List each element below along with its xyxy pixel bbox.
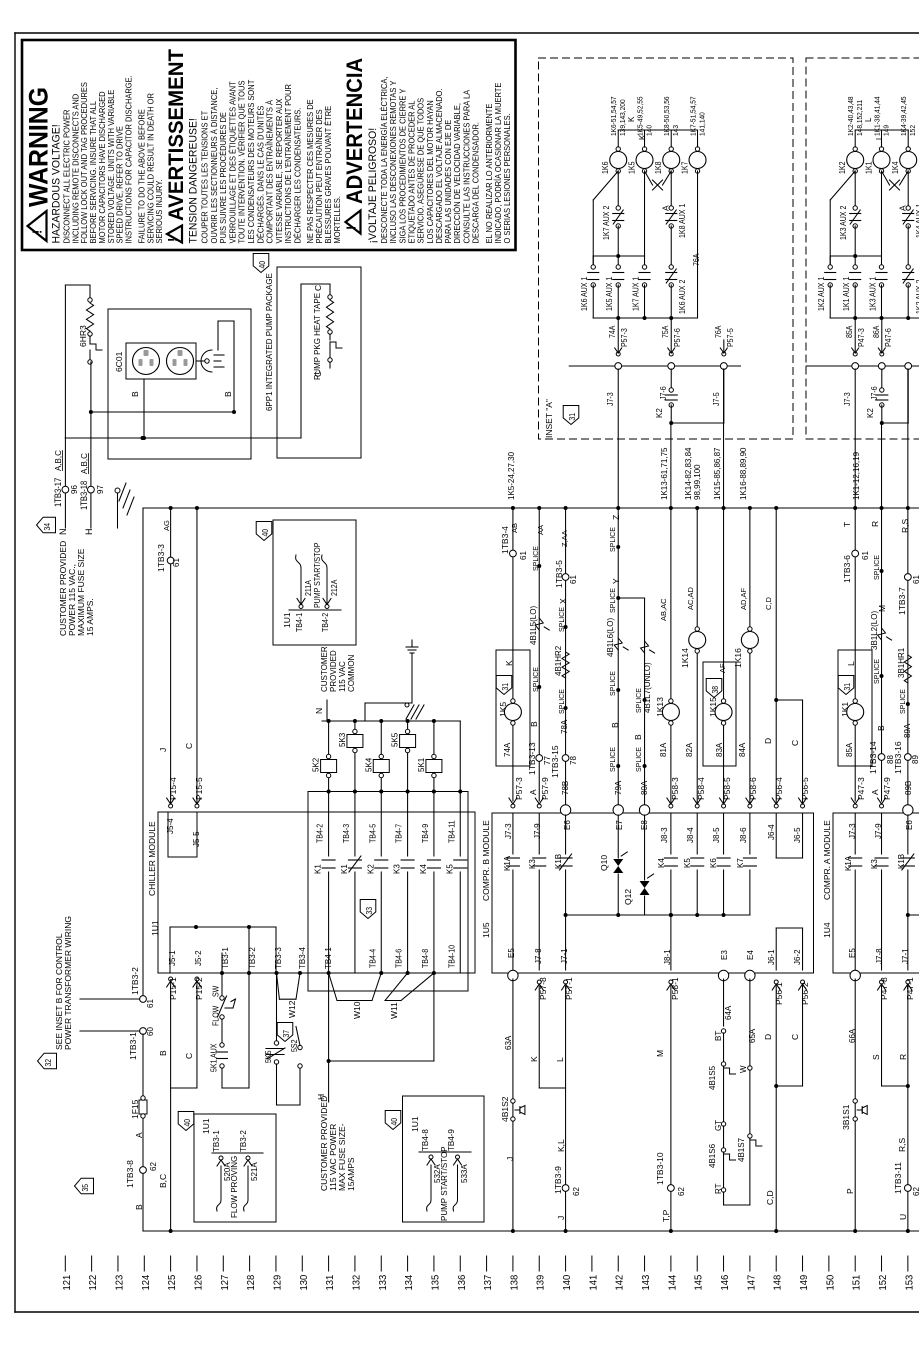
- svg-text:134: 134: [404, 1274, 416, 1290]
- svg-text:FLOW: FLOW: [211, 1005, 221, 1026]
- svg-text:85A: 85A: [845, 326, 855, 338]
- svg-text:TB3-2: TB3-2: [239, 1130, 248, 1152]
- svg-text:J: J: [556, 1216, 566, 1220]
- svg-text:SIGA LOS PROCEDIMIENTOS DE CIE: SIGA LOS PROCEDIMIENTOS DE CIERRE Y: [398, 89, 407, 244]
- svg-text:38: 38: [710, 686, 720, 694]
- svg-text:P58-5: P58-5: [722, 777, 732, 800]
- svg-text:4B1S7: 4B1S7: [737, 1137, 746, 1162]
- svg-text:P56-2: P56-2: [800, 982, 810, 1005]
- svg-text:INCLUSO LAS DESCONEXIONES REMO: INCLUSO LAS DESCONEXIONES REMOTAS Y: [389, 81, 398, 244]
- svg-text:R,S: R,S: [897, 1138, 907, 1153]
- svg-text:63A: 63A: [504, 1035, 513, 1050]
- svg-text:B,C: B,C: [158, 1174, 168, 1188]
- svg-text:76A: 76A: [692, 254, 702, 266]
- svg-text:P47-9: P47-9: [882, 777, 892, 800]
- svg-text:J7-3: J7-3: [843, 392, 853, 406]
- svg-text:J8-3: J8-3: [660, 827, 669, 843]
- svg-text:J7-1: J7-1: [560, 948, 569, 964]
- svg-text:P15-2: P15-2: [194, 977, 204, 1000]
- svg-text:15AMPS: 15AMPS: [346, 1157, 356, 1191]
- svg-text:85A: 85A: [845, 742, 854, 757]
- svg-text:J: J: [158, 748, 168, 752]
- svg-text:ETIQUETADO ANTES DE PROCEDER A: ETIQUETADO ANTES DE PROCEDER AL: [407, 100, 416, 244]
- svg-text:EL NO REALIZAR LO ANTERIORMENT: EL NO REALIZAR LO ANTERIORMENTE: [485, 104, 494, 244]
- svg-text:40: 40: [182, 1119, 192, 1127]
- svg-text:J: J: [505, 1157, 515, 1161]
- svg-text:A: A: [134, 1132, 144, 1138]
- svg-text:J8-6: J8-6: [739, 827, 748, 843]
- svg-text:K1: K1: [314, 864, 323, 874]
- svg-text:W: W: [739, 1065, 748, 1073]
- svg-text:1K7-51,54,57: 1K7-51,54,57: [690, 96, 697, 136]
- svg-text:B: B: [134, 1204, 144, 1210]
- svg-text:140: 140: [646, 125, 653, 136]
- svg-text:124: 124: [140, 1274, 152, 1290]
- svg-text:J7-9: J7-9: [533, 823, 542, 839]
- svg-text:P57-3: P57-3: [620, 328, 630, 347]
- svg-text:N: N: [314, 708, 324, 714]
- svg-text:1TB3-18: 1TB3-18: [78, 480, 89, 510]
- svg-text:1TB3-4: 1TB3-4: [500, 526, 510, 554]
- svg-text:1K6: 1K6: [601, 162, 611, 174]
- svg-text:K: K: [504, 660, 514, 666]
- svg-text:B: B: [158, 1050, 168, 1056]
- svg-text:P58-1: P58-1: [670, 977, 680, 1000]
- svg-text:PRÉCAUTION PEUT ENTRAÎNER DES: PRÉCAUTION PEUT ENTRAÎNER DES: [315, 109, 324, 243]
- svg-text:H: H: [84, 529, 94, 536]
- svg-text:1TB3-11: 1TB3-11: [893, 1162, 903, 1194]
- svg-text:O SERIAS LESIONES PERSONALES.: O SERIAS LESIONES PERSONALES.: [503, 113, 512, 243]
- svg-text:S: S: [871, 1054, 881, 1060]
- svg-text:4B1S5: 4B1S5: [708, 1065, 717, 1090]
- svg-text:L: L: [555, 1057, 565, 1062]
- svg-text:J5-4: J5-4: [166, 818, 175, 834]
- svg-text:AB: AB: [510, 523, 519, 533]
- svg-text:135: 135: [430, 1274, 442, 1290]
- svg-text:31: 31: [567, 413, 577, 421]
- svg-text:B: B: [223, 391, 233, 397]
- svg-text:Q10: Q10: [599, 855, 609, 871]
- svg-text:E6: E6: [905, 820, 914, 830]
- svg-text:L: L: [864, 117, 873, 122]
- svg-text:4B1L5(LO): 4B1L5(LO): [529, 606, 538, 645]
- svg-text:J6-5: J6-5: [793, 827, 802, 843]
- svg-text:PROVIDED: PROVIDED: [329, 650, 338, 692]
- svg-text:Y: Y: [611, 578, 621, 584]
- svg-text:521A: 521A: [250, 1162, 259, 1181]
- svg-text:J7-6: J7-6: [659, 386, 669, 400]
- svg-text:K1B: K1B: [897, 854, 906, 869]
- svg-text:84A: 84A: [738, 742, 747, 757]
- svg-text:C,D: C,D: [765, 1190, 775, 1205]
- svg-text:CONSULTE LAS INSTRUCCIONES PAR: CONSULTE LAS INSTRUCCIONES PARA LA: [462, 89, 471, 243]
- svg-text:61: 61: [172, 558, 181, 567]
- svg-text:TB4-9: TB4-9: [420, 824, 430, 843]
- svg-text:D: D: [763, 738, 773, 744]
- svg-text:4B1S6: 4B1S6: [708, 1143, 717, 1168]
- svg-text:61: 61: [912, 575, 919, 584]
- svg-text:129: 129: [272, 1274, 284, 1290]
- svg-text:130: 130: [298, 1274, 310, 1290]
- svg-text:1TB3-16: 1TB3-16: [893, 741, 903, 774]
- svg-text:U: U: [898, 1214, 908, 1220]
- svg-text:133: 133: [377, 1274, 389, 1290]
- svg-text:A: A: [528, 789, 538, 795]
- svg-text:3B1S1: 3B1S1: [841, 1104, 851, 1130]
- svg-text:PUMP START/STOP: PUMP START/STOP: [440, 1146, 449, 1221]
- svg-text:1U1: 1U1: [282, 612, 292, 628]
- svg-text:P47-3: P47-3: [856, 777, 866, 800]
- svg-text:K5: K5: [445, 864, 454, 874]
- svg-text:P57-5: P57-5: [725, 328, 735, 347]
- svg-text:137: 137: [483, 1274, 495, 1290]
- svg-text:TB3-3: TB3-3: [274, 947, 283, 969]
- svg-text:T: T: [842, 522, 852, 527]
- svg-text:TB4-3: TB4-3: [341, 824, 351, 843]
- svg-text:89B: 89B: [904, 781, 913, 795]
- svg-text:SW: SW: [211, 985, 221, 997]
- svg-text:89: 89: [911, 755, 919, 764]
- svg-text:K: K: [529, 1056, 539, 1062]
- svg-text:BLESSURES GRAVES POUVANT ÊTRE: BLESSURES GRAVES POUVANT ÊTRE: [324, 106, 333, 244]
- svg-text:TB4-7: TB4-7: [394, 824, 404, 843]
- svg-text:Z,AA: Z,AA: [560, 530, 569, 547]
- svg-text:146: 146: [720, 1274, 732, 1290]
- svg-text:C: C: [184, 1053, 194, 1059]
- svg-text:K7: K7: [736, 858, 745, 868]
- svg-text:K2: K2: [866, 408, 875, 418]
- svg-text:INSET "A": INSET "A": [544, 399, 554, 438]
- svg-text:62: 62: [572, 1187, 581, 1196]
- svg-text:143: 143: [673, 125, 680, 136]
- svg-text:35: 35: [80, 1184, 90, 1192]
- svg-text:SERVICIO. ASEGÚRESE DE QUE TO: SERVICIO. ASEGÚRESE DE QUE TODOS: [416, 98, 425, 244]
- svg-text:5K1 AUX: 5K1 AUX: [209, 1044, 219, 1072]
- svg-text:TB3-1: TB3-1: [212, 1130, 221, 1152]
- svg-text:1K15-85,86,87: 1K15-85,86,87: [713, 447, 722, 500]
- svg-text:128: 128: [246, 1274, 258, 1290]
- svg-text:86A: 86A: [871, 326, 881, 338]
- svg-text:1U1: 1U1: [410, 1116, 420, 1132]
- svg-text:TB4-5: TB4-5: [368, 824, 378, 843]
- svg-text:144: 144: [667, 1274, 679, 1290]
- svg-text:TB4-8: TB4-8: [421, 1129, 430, 1151]
- svg-text:TENSION DANGEREUSE!: TENSION DANGEREUSE!: [187, 118, 199, 243]
- svg-text:P56-4: P56-4: [774, 777, 784, 800]
- svg-text:1K1 AUX 1: 1K1 AUX 1: [842, 277, 852, 311]
- svg-text:C: C: [313, 285, 323, 291]
- svg-text:SPLICE: SPLICE: [610, 747, 617, 772]
- svg-text:1K14-82,83,84: 1K14-82,83,84: [684, 447, 693, 500]
- svg-text:1U1: 1U1: [150, 920, 160, 936]
- svg-text:65A: 65A: [748, 1028, 757, 1043]
- svg-text:5K5: 5K5: [264, 1051, 274, 1063]
- svg-text:5S2: 5S2: [290, 1040, 300, 1052]
- svg-text:61: 61: [861, 551, 870, 560]
- svg-text:533A: 533A: [460, 1164, 469, 1183]
- svg-text:1K3 AUX 1: 1K3 AUX 1: [868, 277, 878, 311]
- svg-text:78A: 78A: [560, 719, 569, 734]
- svg-text:SPLICE: SPLICE: [874, 659, 881, 684]
- svg-text:141,140: 141,140: [699, 112, 706, 136]
- svg-text:C: C: [184, 743, 194, 749]
- svg-text:R: R: [870, 521, 880, 527]
- svg-text:212A: 212A: [330, 580, 340, 596]
- svg-text:4B1S2: 4B1S2: [500, 1096, 510, 1122]
- svg-text:1K8: 1K8: [654, 162, 664, 174]
- svg-text:DÉCHARGÉS. DANS LE CAS D'UNI: DÉCHARGÉS. DANS LE CAS D'UNITÉS: [256, 106, 265, 244]
- svg-text:6HR3: 6HR3: [78, 325, 88, 347]
- svg-text:78B: 78B: [561, 781, 570, 795]
- svg-text:75A: 75A: [661, 326, 671, 338]
- svg-text:SPLICE: SPLICE: [636, 747, 643, 772]
- svg-text:K4: K4: [657, 858, 666, 868]
- svg-text:1U4: 1U4: [822, 922, 832, 938]
- svg-text:1TB3-6: 1TB3-6: [842, 555, 852, 583]
- svg-text:K: K: [627, 116, 636, 122]
- svg-text:64A: 64A: [724, 1005, 733, 1020]
- svg-text:1K6 AUX 1: 1K6 AUX 1: [580, 277, 590, 311]
- svg-text:J7-3: J7-3: [504, 823, 513, 839]
- svg-text:SPLICE: SPLICE: [610, 527, 617, 552]
- svg-text:32: 32: [43, 1059, 53, 1067]
- svg-text:140: 140: [562, 1274, 574, 1290]
- svg-text:M: M: [655, 1050, 665, 1057]
- svg-text:1K1: 1K1: [864, 162, 874, 174]
- svg-text:LOS CAPACITORES DEL MOTOR HAYA: LOS CAPACITORES DEL MOTOR HAYAN: [426, 100, 435, 243]
- svg-text:126: 126: [193, 1274, 205, 1290]
- svg-text:LES CONDENSATEURS DES MOTEURS: LES CONDENSATEURS DES MOTEURS SONT: [247, 79, 256, 243]
- svg-text:80A: 80A: [640, 780, 649, 795]
- svg-text:VITESSE VARIABLE, SE REPORTER: VITESSE VARIABLE, SE REPORTER AUX: [275, 99, 284, 244]
- svg-text:1TB3-3: 1TB3-3: [156, 544, 166, 572]
- svg-text:TB4-8: TB4-8: [420, 949, 430, 968]
- svg-text:AA: AA: [536, 525, 545, 535]
- svg-text:1TB3-8: 1TB3-8: [125, 1160, 135, 1188]
- svg-text:1TB3-9: 1TB3-9: [553, 1166, 563, 1194]
- svg-text:1TB3-5: 1TB3-5: [554, 560, 564, 588]
- svg-text:VERROUILLAGE ET DES ÉTIQUETTES: VERROUILLAGE ET DES ÉTIQUETTES AVANT: [228, 81, 237, 244]
- svg-text:P56-1: P56-1: [774, 982, 784, 1005]
- svg-text:¡VOLTAJE PELIGROSO!: ¡VOLTAJE PELIGROSO!: [367, 128, 379, 244]
- svg-text:CHILLER MODULE: CHILLER MODULE: [147, 821, 157, 896]
- svg-text:1TB3-14: 1TB3-14: [868, 741, 878, 774]
- svg-text:B: B: [876, 725, 886, 731]
- svg-text:COMPORTANT DES ENTRAÎNEMENTS À: COMPORTANT DES ENTRAÎNEMENTS À: [265, 99, 274, 243]
- svg-text:TB3-4: TB3-4: [298, 947, 307, 969]
- svg-text:1K2: 1K2: [838, 162, 848, 174]
- svg-text:1U5: 1U5: [481, 922, 491, 938]
- svg-text:145: 145: [693, 1274, 705, 1290]
- svg-text:SPLICE: SPLICE: [559, 689, 566, 714]
- svg-text:66A: 66A: [848, 1028, 857, 1043]
- svg-text:1TB3-7: 1TB3-7: [897, 587, 907, 615]
- svg-text:M: M: [877, 605, 887, 612]
- svg-text:K2: K2: [655, 408, 664, 418]
- svg-text:TOUTE INTERVENTION. VÉRIFIER: TOUTE INTERVENTION. VÉRIFIER QUE TOUS: [237, 81, 246, 244]
- svg-text:61: 61: [146, 999, 155, 1008]
- svg-text:COUPER TOUTES LES TENSIONS ET: COUPER TOUTES LES TENSIONS ET: [200, 111, 209, 244]
- svg-text:76A: 76A: [713, 326, 723, 338]
- svg-text:1K2-40,43,48: 1K2-40,43,48: [848, 96, 855, 136]
- svg-text:J7-5: J7-5: [711, 392, 721, 406]
- svg-text:P57-6: P57-6: [673, 328, 683, 347]
- svg-text:COMPR. B MODULE: COMPR. B MODULE: [481, 820, 491, 901]
- svg-text:C: C: [790, 1034, 800, 1040]
- svg-text:131: 131: [325, 1274, 337, 1290]
- svg-text:136: 136: [456, 1274, 468, 1290]
- svg-text:127: 127: [219, 1274, 231, 1290]
- svg-text:31: 31: [500, 683, 510, 691]
- svg-text:C,D: C,D: [764, 597, 773, 611]
- svg-text:COMPR. A MODULE: COMPR. A MODULE: [822, 820, 832, 900]
- svg-text:T,P: T,P: [661, 1209, 671, 1222]
- svg-text:ADVERTENCIA: ADVERTENCIA: [343, 58, 367, 204]
- svg-text:1K6 AUX 2: 1K6 AUX 2: [678, 280, 688, 314]
- svg-text:Q12: Q12: [623, 889, 633, 905]
- svg-text:CUSTOMER: CUSTOMER: [320, 646, 329, 692]
- svg-text:J7-8: J7-8: [534, 948, 543, 964]
- svg-text:J7-8: J7-8: [875, 948, 884, 964]
- svg-text:INSTRUCTIONS FOR CAPACITOR DIS: INSTRUCTIONS FOR CAPACITOR DISCHARGE.: [124, 75, 133, 243]
- svg-text:SPLICE: SPLICE: [900, 689, 907, 714]
- svg-text:62: 62: [677, 1187, 686, 1196]
- svg-text:J7-6: J7-6: [869, 386, 879, 400]
- svg-text:A: A: [898, 205, 908, 211]
- svg-text:P15-5: P15-5: [194, 777, 204, 800]
- svg-text:E7: E7: [615, 820, 624, 830]
- svg-text:P47-6: P47-6: [883, 328, 893, 347]
- svg-text:79A: 79A: [614, 780, 623, 795]
- svg-text:J5-1: J5-1: [168, 950, 177, 966]
- svg-text:C: C: [790, 740, 800, 746]
- svg-text:82A: 82A: [685, 742, 694, 757]
- svg-text:149: 149: [799, 1274, 811, 1290]
- svg-text:PUMP START/STOP: PUMP START/STOP: [313, 543, 323, 608]
- svg-text:1K13-61,71,75: 1K13-61,71,75: [660, 447, 669, 500]
- svg-text:SPLICE: SPLICE: [610, 671, 617, 696]
- svg-text:COMMON: COMMON: [347, 654, 356, 692]
- svg-text:PUIS SUIVRE LES PROCÉDURES DE: PUIS SUIVRE LES PROCÉDURES DE: [219, 112, 228, 243]
- svg-text:40: 40: [257, 261, 267, 269]
- svg-text:B: B: [633, 734, 643, 740]
- svg-text:J6-4: J6-4: [767, 824, 776, 840]
- svg-text:62: 62: [149, 1162, 158, 1171]
- svg-text:MORTELLES.: MORTELLES.: [333, 196, 342, 243]
- svg-text:K3: K3: [870, 859, 879, 869]
- svg-text:1TB3-17: 1TB3-17: [52, 477, 63, 507]
- svg-text:34: 34: [42, 523, 52, 531]
- svg-text:A: A: [661, 205, 671, 211]
- svg-text:P47-8: P47-8: [879, 977, 889, 1000]
- svg-text:A: A: [870, 789, 880, 795]
- svg-text:1K16: 1K16: [733, 648, 743, 668]
- svg-text:J6-2: J6-2: [793, 949, 802, 965]
- svg-text:INSTRUCTIONS DE L'ENTRAÎNEMENT: INSTRUCTIONS DE L'ENTRAÎNEMENT POUR: [284, 84, 293, 244]
- svg-text:HAZARDOUS VOLTAGE!: HAZARDOUS VOLTAGE!: [50, 124, 62, 243]
- svg-text:J5-5: J5-5: [192, 831, 201, 847]
- svg-text:5K2: 5K2: [312, 757, 321, 772]
- svg-text:3B1L2(LO): 3B1L2(LO): [870, 611, 879, 650]
- svg-text:1K14: 1K14: [680, 648, 690, 668]
- svg-text:J8-4: J8-4: [686, 827, 695, 843]
- svg-text:15 AMPS.: 15 AMPS.: [85, 598, 95, 636]
- svg-text:DÉCHARGER LES CONDENSATEURS.: DÉCHARGER LES CONDENSATEURS.: [293, 108, 302, 244]
- svg-text:INDICADO, PODRÍA OCASIONAR LA: INDICADO, PODRÍA OCASIONAR LA MUERTE: [494, 83, 503, 244]
- svg-text:6PP1 INTEGRATED PUMP PACKAG: 6PP1 INTEGRATED PUMP PACKAGE: [265, 273, 274, 411]
- svg-text:1K1-12,16,19: 1K1-12,16,19: [852, 451, 861, 500]
- svg-text:33: 33: [364, 907, 374, 915]
- svg-text:TB4-4: TB4-4: [368, 949, 378, 968]
- svg-text:P15-1: P15-1: [168, 977, 178, 1000]
- svg-text:D: D: [763, 1034, 773, 1040]
- svg-text:E6: E6: [563, 820, 572, 830]
- svg-text:K5: K5: [683, 858, 692, 868]
- svg-text:SPLICE: SPLICE: [610, 588, 617, 613]
- svg-text:60: 60: [146, 1027, 155, 1036]
- svg-text:139: 139: [535, 1274, 547, 1290]
- svg-text:40: 40: [389, 1118, 399, 1126]
- svg-text:151: 151: [851, 1274, 863, 1290]
- svg-text:1K4: 1K4: [891, 162, 901, 174]
- svg-text:A,B,C: A,B,C: [54, 450, 63, 471]
- svg-text:97: 97: [96, 485, 105, 494]
- svg-text:P57-9: P57-9: [540, 777, 550, 800]
- svg-text:152: 152: [878, 1274, 890, 1290]
- svg-text:153: 153: [904, 1274, 916, 1290]
- svg-text:B: B: [529, 721, 539, 727]
- svg-text:NE PAS RESPECTER CES MESURES D: NE PAS RESPECTER CES MESURES DE: [306, 99, 315, 243]
- svg-text:W10: W10: [352, 1001, 362, 1019]
- svg-text:152: 152: [910, 125, 917, 136]
- svg-text:147: 147: [746, 1274, 758, 1290]
- svg-text:148,152,211: 148,152,211: [857, 100, 864, 136]
- svg-text:R,S: R,S: [900, 519, 910, 534]
- svg-text:98,99,100: 98,99,100: [693, 464, 702, 500]
- svg-text:6C01: 6C01: [114, 351, 124, 372]
- svg-text:1U1: 1U1: [201, 1118, 211, 1134]
- svg-text:E4: E4: [746, 950, 755, 960]
- svg-text:J7-1: J7-1: [901, 948, 910, 964]
- svg-text:AD,AF: AD,AF: [739, 587, 748, 610]
- svg-text:J5-2: J5-2: [194, 950, 203, 966]
- svg-text:K3: K3: [393, 864, 402, 874]
- svg-text:R: R: [898, 1054, 908, 1060]
- svg-text:132: 132: [351, 1274, 363, 1290]
- svg-text:K2: K2: [366, 864, 375, 874]
- svg-text:DESCARGADO EL VOLTAJE ALMACENA: DESCARGADO EL VOLTAJE ALMACENADO.: [435, 88, 444, 243]
- svg-text:1K5: 1K5: [627, 162, 637, 174]
- svg-text:J8-5: J8-5: [712, 827, 721, 843]
- svg-text:4B1L7(UNLO): 4B1L7(UNLO): [643, 662, 652, 713]
- svg-text:SERIOUS INJURY.: SERIOUS INJURY.: [155, 180, 164, 244]
- svg-text:143: 143: [641, 1274, 653, 1290]
- svg-text:5K4: 5K4: [364, 757, 373, 772]
- svg-text:138: 138: [509, 1274, 521, 1290]
- svg-text:DESCARGA DEL CONDENSADOR.: DESCARGA DEL CONDENSADOR.: [471, 122, 480, 244]
- svg-text:141: 141: [588, 1274, 600, 1290]
- svg-text:TB4-2: TB4-2: [315, 824, 325, 843]
- svg-text:!: !: [30, 230, 45, 234]
- svg-text:122: 122: [88, 1274, 100, 1290]
- svg-text:E3: E3: [720, 950, 729, 960]
- svg-text:61: 61: [519, 551, 528, 560]
- svg-text:K4: K4: [419, 864, 428, 874]
- svg-text:1K3 AUX 2: 1K3 AUX 2: [839, 206, 849, 240]
- svg-text:K1A: K1A: [844, 855, 853, 871]
- svg-text:K1B: K1B: [554, 854, 563, 869]
- svg-text:1K7 AUX 2: 1K7 AUX 2: [602, 206, 612, 240]
